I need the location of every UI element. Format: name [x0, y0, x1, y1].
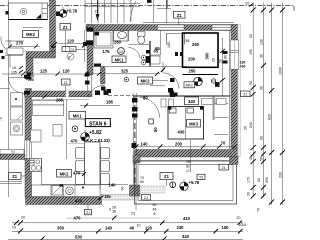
- svg-text:140: 140: [105, 225, 113, 230]
- svg-text:100: 100: [222, 225, 230, 230]
- wire terrace stair line: [190, 140, 192, 172]
- svg-text:Z1: Z1: [86, 211, 90, 215]
- door neighbor swing arc: [1, 37, 8, 51]
- dimension texts left margin entry: [11, 66, 17, 75]
- fixture niche closet room: [151, 56, 161, 64]
- svg-text:1R: 1R: [186, 160, 191, 164]
- furniture dining chairs left: [76, 148, 85, 185]
- wall bottom light band: [101, 194, 133, 200]
- svg-text:265: 265: [56, 98, 64, 103]
- node blob bedroom2 wall lower: [132, 143, 137, 148]
- fixture kitchen sink unit: [52, 184, 63, 195]
- wall hall partition vertical: [101, 67, 106, 84]
- kitchen counter bottom: [32, 159, 129, 197]
- svg-text:60: 60: [140, 180, 144, 184]
- svg-text:T2: T2: [199, 176, 203, 180]
- svg-text:20: 20: [212, 58, 216, 62]
- svg-text:Z1: Z1: [144, 196, 148, 200]
- svg-text:30: 30: [153, 203, 157, 207]
- label elevation marker living: [81, 130, 90, 141]
- stair break line: [130, 1, 136, 22]
- dimension 470 kitchen tick: [73, 170, 86, 176]
- node ticks pair small bedroom1 left: [175, 52, 183, 56]
- svg-text:125: 125: [40, 69, 48, 74]
- label circled symbol living: [72, 126, 78, 132]
- node window in top wall: [158, 25, 185, 30]
- svg-text:20: 20: [237, 216, 241, 220]
- fixture circle symbol top-left: [20, 8, 26, 14]
- svg-text:140: 140: [141, 141, 149, 146]
- svg-text:90: 90: [121, 187, 125, 191]
- fixture washer circle: [66, 187, 74, 195]
- svg-text:200: 200: [265, 177, 269, 183]
- svg-text:10: 10: [119, 50, 123, 54]
- node blob left wall: [6, 11, 9, 15]
- svg-text:+5.82: +5.82: [89, 130, 102, 136]
- fixture shower stall closet room: [167, 34, 185, 45]
- label 101 box entry: [62, 47, 86, 53]
- wall jog line at kitchen wall end: [100, 194, 102, 201]
- svg-text:50: 50: [257, 178, 261, 182]
- label Z1 box kitchen left: [9, 173, 26, 180]
- door wc swing: [129, 48, 141, 59]
- dimension stack small bottom: [109, 206, 116, 214]
- node window ticks right wall: [223, 51, 228, 64]
- label MK2 box top-left: [23, 31, 39, 38]
- svg-text:23: 23: [131, 212, 135, 216]
- svg-text:20: 20: [244, 126, 248, 130]
- label Z1 box terrace right: [219, 164, 229, 170]
- node neighbor door lines: [5, 41, 24, 56]
- wall upper right stub: [157, 0, 171, 9]
- terrace outline: [135, 161, 237, 210]
- label circled symbol hall right: [194, 77, 203, 86]
- dimension chain left line2: [12, 216, 246, 230]
- node counter black dot: [82, 187, 84, 189]
- dimension hall line 125 120: [2, 69, 89, 76]
- svg-text:18x: 18x: [104, 194, 112, 199]
- label circled cross bedroom1: [211, 79, 215, 83]
- wall right insulation dotted: [238, 25, 241, 157]
- label MK2 box hall: [138, 77, 153, 84]
- svg-text:70: 70: [257, 208, 261, 212]
- dimension vertical right line4: [278, 3, 285, 206]
- dimension vertical right line2: [257, 3, 266, 213]
- svg-text:200: 200: [188, 57, 196, 62]
- wall neighbor bottom hatched: [0, 154, 25, 160]
- svg-text:250: 250: [189, 69, 197, 74]
- node black mark near MK1: [146, 60, 151, 64]
- svg-text:80: 80: [143, 96, 148, 101]
- wall left upper vertical hatched: [50, 0, 56, 52]
- svg-text:90: 90: [259, 136, 263, 140]
- svg-text:170: 170: [247, 177, 251, 183]
- furniture closet bedroom2 top: [161, 99, 226, 108]
- label MK2 box bedroom1: [184, 82, 195, 88]
- svg-text:STAN 6: STAN 6: [89, 121, 107, 127]
- svg-text:430: 430: [178, 130, 186, 135]
- door bedroom1 swing: [150, 62, 179, 97]
- label circled 10 bathroom: [118, 48, 125, 55]
- svg-text:20: 20: [249, 34, 253, 38]
- svg-text:Z1: Z1: [222, 166, 226, 170]
- wall living top hatched: [25, 91, 93, 97]
- fixture neighbor sink circles: [0, 98, 22, 132]
- svg-text:20: 20: [219, 59, 223, 63]
- dimension chain right line1: [8, 234, 243, 240]
- svg-text:120: 120: [67, 38, 75, 43]
- svg-text:70: 70: [221, 140, 226, 145]
- svg-text:10: 10: [12, 226, 16, 230]
- label MK1 box bath: [112, 56, 126, 63]
- svg-text:140: 140: [109, 182, 117, 187]
- svg-text:Z1: Z1: [164, 174, 170, 179]
- svg-text:80: 80: [153, 127, 158, 132]
- node window2 in top wall: [212, 25, 237, 30]
- node window left wall: [25, 140, 32, 159]
- svg-text:Z1: Z1: [63, 25, 69, 30]
- svg-text:250: 250: [192, 42, 200, 47]
- svg-text:470: 470: [71, 138, 79, 143]
- node lintel blob bathroom bottom: [94, 64, 101, 67]
- svg-text:200: 200: [175, 141, 183, 146]
- node wc door ticks: [146, 50, 151, 60]
- label stair text stack terrace: [186, 160, 191, 173]
- svg-text:120: 120: [145, 225, 153, 230]
- label T2 box terrace: [197, 174, 205, 179]
- wire living top inner line: [31, 99, 89, 101]
- svg-text:MK2: MK2: [26, 32, 36, 37]
- node small mark right top: [249, 4, 253, 7]
- wire dim line dining: [68, 143, 85, 145]
- svg-text:18: 18: [95, 10, 99, 14]
- node tick living bottom: [99, 196, 104, 201]
- node right dim tick clusters: [244, 126, 286, 196]
- svg-text:190: 190: [249, 49, 253, 55]
- svg-text:Z1: Z1: [12, 174, 18, 179]
- furniture nightstand bedroom2: [148, 119, 153, 124]
- wall stair landing lines: [143, 0, 234, 23]
- wall bathroom-wc divider: [128, 31, 130, 42]
- dimension stack small terrace left: [131, 203, 156, 216]
- label circled symbol terrace: [170, 182, 176, 188]
- svg-text:175: 175: [103, 49, 111, 54]
- svg-text:10: 10: [239, 223, 243, 227]
- svg-text:38: 38: [112, 210, 116, 214]
- dimension vertical line bathroom left: [82, 30, 87, 62]
- wall entry vertical upper hatched: [26, 58, 33, 75]
- label Z1 box terrace-left wall: [142, 195, 151, 201]
- label circled symbol hall: [124, 77, 128, 81]
- label MK2 box kitchen: [57, 170, 72, 178]
- svg-text:1000: 1000: [278, 67, 282, 75]
- wall wc top line: [129, 44, 151, 46]
- wall bathroom left hatched: [87, 25, 93, 76]
- svg-text:200: 200: [28, 78, 34, 82]
- label Z1 box upper-left: [60, 24, 71, 48]
- bathroom sink counter: [114, 31, 129, 42]
- svg-text:470: 470: [73, 170, 81, 175]
- node wall tick entry: [51, 42, 57, 48]
- node door frame ticks entry wall: [26, 73, 32, 80]
- svg-text:350: 350: [57, 225, 65, 230]
- svg-text:90: 90: [249, 81, 253, 85]
- svg-text:Z1: Z1: [177, 13, 183, 18]
- svg-text:46: 46: [153, 208, 157, 212]
- label STAN 6 box: [85, 119, 110, 128]
- fixture entry circle symbol: [67, 53, 74, 60]
- svg-text:20: 20: [245, 2, 249, 6]
- node hall door ticks: [85, 73, 111, 94]
- bathroom shower tub: [94, 31, 113, 49]
- dimension 325 hall: [93, 68, 160, 76]
- dimension tiny 138 at entry door: [28, 74, 34, 82]
- label MK1 box living: [69, 112, 86, 120]
- wall corner stub right: [230, 157, 239, 165]
- svg-text:40: 40: [130, 225, 135, 230]
- node right wall tick cluster: [240, 61, 246, 69]
- label Z1 box top: [174, 11, 186, 25]
- dimension tiny stack 70 60: [140, 176, 144, 184]
- wall gray stub bedroom2: [213, 97, 215, 121]
- svg-text:70: 70: [0, 117, 3, 121]
- dimension 185 living top: [80, 100, 120, 108]
- terrace step strip: [140, 186, 165, 193]
- svg-text:30: 30: [249, 156, 253, 160]
- wall bedroom1 bottom black: [183, 74, 219, 76]
- room top-left balcony rect: [9, 3, 48, 20]
- svg-text:300: 300: [205, 52, 210, 60]
- wire top dash-dot axis line: [0, 6, 294, 13]
- node corner mark top-left room: [36, 14, 41, 19]
- label Z1 box terrace left: [160, 173, 173, 187]
- svg-text:410: 410: [183, 216, 191, 221]
- furniture sofa living: [33, 100, 101, 191]
- wall right exterior hatched: [231, 25, 238, 150]
- svg-text:10: 10: [242, 223, 246, 227]
- svg-text:+5.78: +5.78: [67, 8, 78, 13]
- node tick sofa: [43, 95, 48, 99]
- svg-text:50: 50: [259, 157, 263, 161]
- svg-text:280: 280: [114, 40, 122, 45]
- svg-text:30: 30: [259, 54, 263, 58]
- wall top hatched band: [86, 25, 238, 31]
- node window right wall upper: [230, 40, 238, 69]
- furniture dining table: [85, 142, 101, 186]
- dimension 120 entry upper: [58, 38, 87, 43]
- node black square bedroom1: [215, 82, 220, 87]
- node bathroom wall niche: [86, 28, 94, 46]
- wire dashed hall line: [108, 95, 133, 97]
- dimension line bedroom2 bottom: [134, 140, 237, 149]
- fixture stove kitchen: [30, 159, 42, 172]
- wire neighbor counter lines: [0, 181, 22, 183]
- wall left main vertical hatched: [25, 89, 32, 198]
- label circled pair wc: [141, 55, 146, 65]
- wall bathroom bottom line: [93, 66, 187, 68]
- dimension vertical right line3: [265, 3, 274, 206]
- svg-text:+5.78: +5.78: [189, 180, 200, 185]
- svg-text:80: 80: [224, 55, 228, 59]
- svg-text:470: 470: [74, 216, 82, 221]
- svg-text:55: 55: [186, 39, 190, 43]
- svg-text:17: 17: [186, 169, 190, 173]
- svg-text:2: 2: [68, 55, 70, 59]
- staircase treads: [85, 0, 140, 23]
- label Z1 box hallway: [62, 79, 71, 92]
- furniture cabinet living left: [31, 125, 63, 143]
- node left margin ticks: [19, 66, 23, 73]
- svg-text:MK3: MK3: [189, 122, 199, 127]
- svg-text:15: 15: [12, 66, 16, 70]
- svg-text:90: 90: [259, 86, 263, 90]
- svg-text:325: 325: [121, 68, 129, 73]
- furniture dining chairs right: [101, 148, 110, 185]
- label elevation marker +5.78 top: [59, 7, 78, 17]
- node neighbor counter rects bottom: [0, 150, 24, 155]
- svg-text:440: 440: [182, 234, 190, 239]
- label Z1 box bottom kitchen: [85, 205, 92, 215]
- closet room small left: [150, 31, 161, 56]
- svg-text:130: 130: [259, 39, 263, 45]
- dimension chain left line3: [12, 223, 243, 234]
- svg-text:MK1: MK1: [115, 57, 125, 62]
- label elevation marker terrace: [180, 180, 188, 191]
- door entry swing arc: [9, 78, 25, 94]
- svg-text:6: 6: [154, 212, 156, 216]
- svg-text:340: 340: [188, 99, 196, 104]
- wall pier bedroom2-left corner: [133, 155, 140, 163]
- svg-text:230: 230: [177, 225, 185, 230]
- furniture bed bedroom2: [168, 93, 204, 140]
- label 340 door box bedroom2: [185, 97, 199, 105]
- door opening bedroom2 wall gap ticks: [95, 91, 174, 96]
- wire left margin vertical line: [8, 0, 10, 197]
- wall pier corner living-terrace: [130, 185, 141, 196]
- svg-text:MK1: MK1: [73, 114, 83, 119]
- room bedroom1 bold outline: [183, 33, 219, 67]
- room neighbor left cabinets: [0, 48, 23, 135]
- svg-text:185: 185: [106, 100, 114, 105]
- wall entry horizontal hatched: [26, 52, 56, 59]
- svg-text:230: 230: [278, 172, 282, 178]
- dimension inner vertical right wall: [219, 38, 226, 96]
- svg-text:820: 820: [268, 114, 272, 120]
- svg-text:+30: +30: [240, 64, 246, 68]
- svg-text:MK2: MK2: [141, 79, 151, 84]
- svg-text:120: 120: [63, 69, 71, 74]
- wall living-bedroom2 vertical double: [133, 93, 136, 185]
- svg-text:20: 20: [21, 216, 25, 220]
- svg-text:10: 10: [137, 224, 141, 228]
- node entry door ticks: [24, 75, 30, 95]
- stair walk line arrow: [97, 0, 99, 20]
- svg-text:8x: 8x: [186, 165, 190, 169]
- wall bottom kitchen hatched: [26, 197, 102, 205]
- svg-text:180: 180: [167, 42, 171, 48]
- svg-text:MK2: MK2: [60, 172, 70, 177]
- wall wc right vertical: [149, 41, 151, 67]
- wire bedroom2 bottom inner line: [137, 159, 233, 161]
- dimension 270 entry: [8, 40, 40, 68]
- svg-text:240: 240: [249, 122, 253, 128]
- svg-text:MK2: MK2: [186, 84, 193, 88]
- wall bedroom2 bottom hatched: [135, 150, 239, 158]
- door hall partition swing: [88, 85, 105, 97]
- node window right wall lower: [214, 103, 228, 134]
- dimension vertical right line1: [247, 3, 256, 199]
- node blob right of left wall: [56, 12, 60, 17]
- wire line below balcony: [23, 27, 43, 29]
- svg-text:Z1: Z1: [64, 81, 68, 85]
- fixture toilet: [138, 32, 146, 45]
- svg-text:30: 30: [247, 192, 251, 196]
- svg-text:530: 530: [75, 234, 83, 239]
- node stair label blob: [147, 0, 152, 3]
- dimension chain left line1: [66, 216, 160, 221]
- door bedroom2 swing: [132, 98, 160, 118]
- svg-text:Z1: Z1: [243, 93, 247, 97]
- svg-text:9: 9: [109, 208, 111, 212]
- wall bedroom2 top line: [133, 95, 230, 97]
- svg-text:01: 01: [71, 48, 75, 52]
- svg-text:470: 470: [75, 199, 83, 204]
- svg-text:270: 270: [16, 41, 24, 46]
- wall right inner face line: [229, 31, 231, 150]
- door entry leaf: [9, 77, 25, 79]
- label MK3 box bed: [187, 120, 201, 128]
- label Z1 box right wall: [241, 91, 256, 97]
- svg-text:65: 65: [155, 46, 160, 51]
